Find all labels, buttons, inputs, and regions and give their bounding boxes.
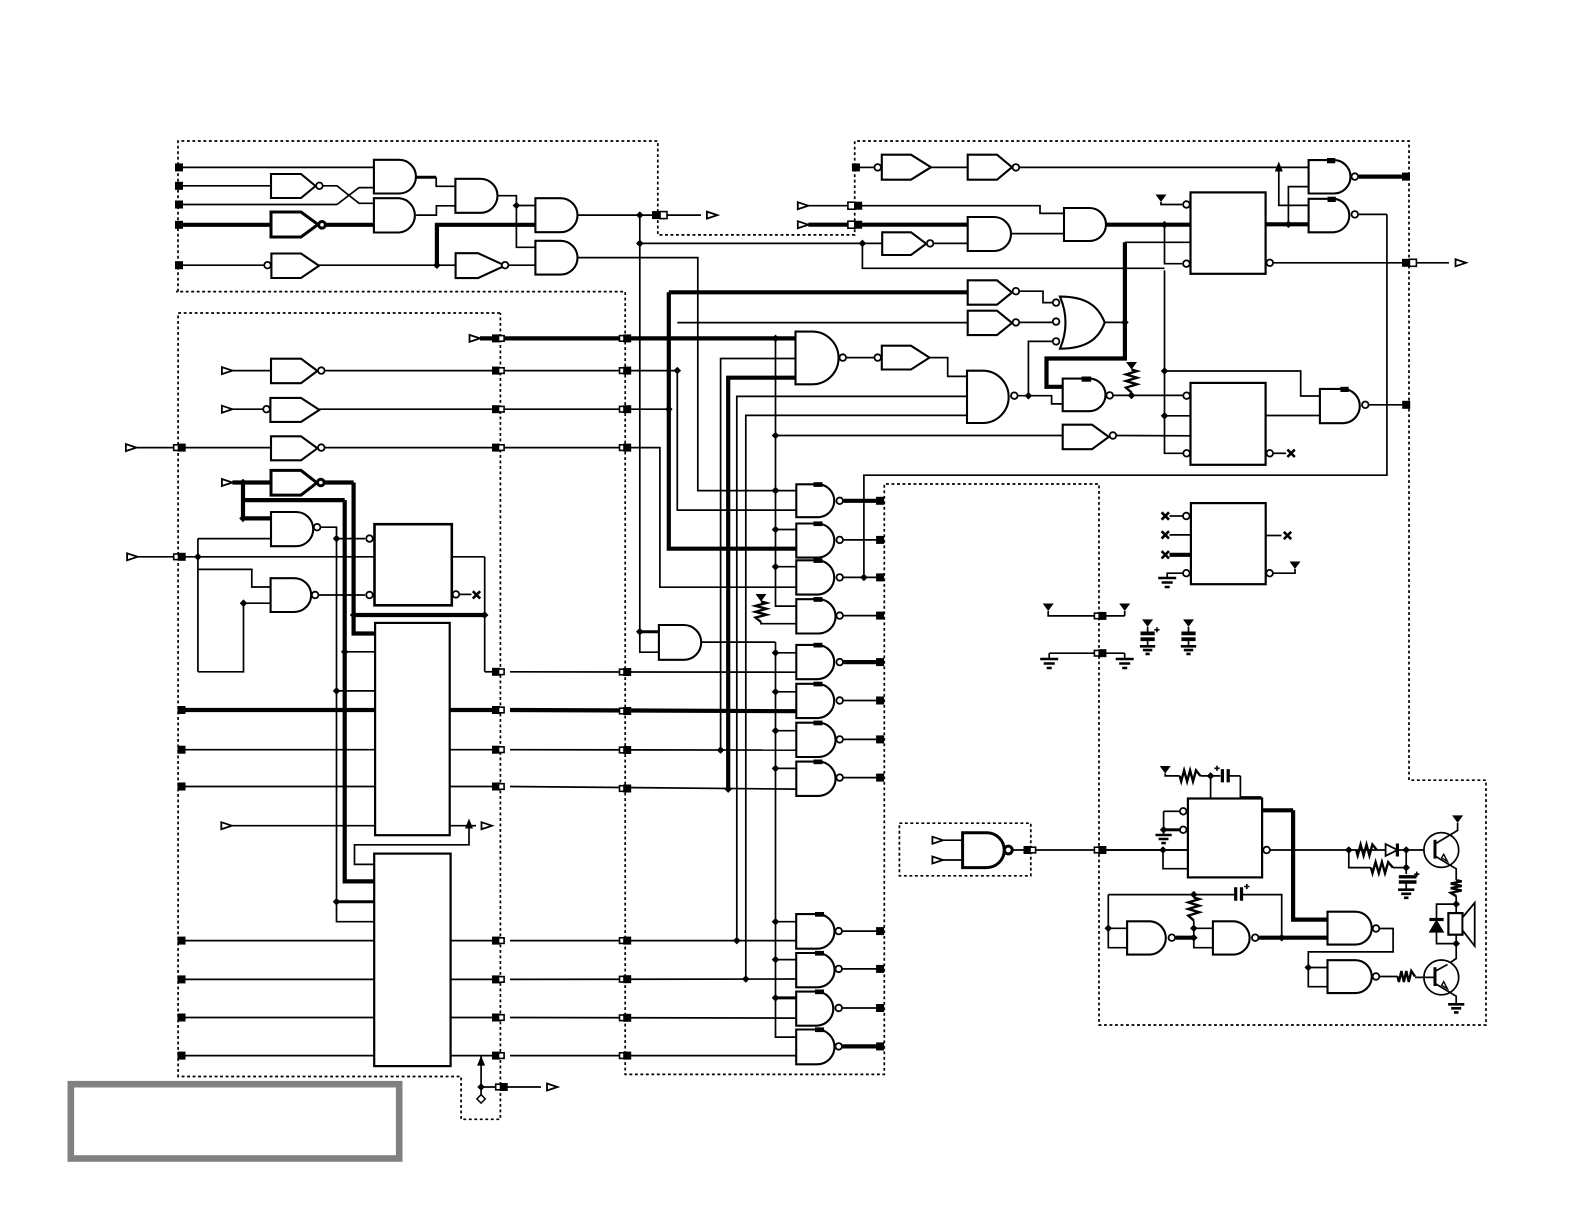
junction: [772, 956, 780, 964]
open node diamond: [477, 1095, 485, 1103]
thick path to NAND Q1: [1047, 322, 1125, 386]
AND gate G1: [374, 160, 416, 194]
wire W1 out feedback to W2: [1308, 929, 1393, 987]
NAND B3: [796, 992, 833, 1026]
wire R1 to M4: [761, 622, 796, 624]
emitter chain to R6: [1453, 867, 1457, 881]
junction: [772, 918, 780, 926]
junction: [636, 211, 644, 219]
wire A2 out: [1011, 233, 1064, 235]
junction: [665, 405, 673, 413]
NAND B1: [796, 914, 834, 949]
wire: [509, 264, 535, 266]
wire P-box out bubble: [1267, 260, 1274, 267]
junction: [772, 649, 780, 657]
junction arrow: [1275, 162, 1283, 172]
input terminal: [178, 746, 186, 754]
input arrow: [798, 221, 809, 228]
boundary terminal: [1094, 613, 1100, 619]
input wire from oscillator: [1103, 849, 1188, 851]
NAND N1 (3-input): [796, 332, 839, 385]
thick bus wire to NAND N1: [480, 336, 796, 340]
dashed boundary top-left block: [176, 141, 1486, 1074]
junction: [772, 487, 780, 495]
input terminal T1: [175, 163, 183, 171]
title block (grey box): [71, 1084, 399, 1158]
resistor R4: [1356, 845, 1377, 856]
input arrow: [222, 406, 233, 413]
wire G4-out vertical rail: [639, 215, 641, 632]
junction arrow: [465, 819, 473, 829]
junction arrow: [477, 1056, 485, 1066]
junction: [1285, 221, 1293, 229]
wire: [862, 243, 1164, 268]
NAND M4: [796, 599, 835, 633]
long wire to NAND P1: [1020, 166, 1309, 168]
wire U10 out 3: [451, 1017, 497, 1019]
wire node to inverter U5: [640, 242, 882, 244]
wire to gate M1 lower input: [677, 371, 796, 511]
input terminal T5: [175, 261, 183, 269]
junction: [772, 727, 780, 735]
pin-strap mark: [814, 558, 823, 563]
pin link: [1165, 225, 1183, 264]
boundary terminal: [620, 938, 626, 944]
wire: [1161, 202, 1182, 205]
boundary terminal: [876, 927, 884, 935]
boundary terminal: [492, 1052, 500, 1060]
wire M5 out to terminal: [844, 660, 877, 664]
wire into IC T-box: [1210, 776, 1212, 799]
thick rail from U2B: [667, 292, 671, 546]
junction: [1105, 925, 1113, 933]
wire S1 out: [1012, 849, 1188, 851]
wire M3 out to terminal: [844, 576, 877, 578]
pin bubble: [1180, 808, 1187, 815]
junction: [733, 937, 741, 945]
boundary terminal: [492, 334, 500, 342]
boundary terminal: [492, 783, 500, 791]
wire M-B out: [319, 594, 365, 596]
buffer U1D: [456, 253, 506, 278]
resistor R1 pull-up: [756, 602, 767, 623]
wire M7 out to terminal: [844, 738, 877, 740]
thick rail down to NOR output node: [1123, 242, 1127, 322]
pin bubble IC Q-box: [1183, 392, 1190, 399]
input arrow: [798, 202, 809, 209]
wire to inverter U6: [669, 290, 968, 294]
NAND P2: [1309, 199, 1350, 233]
thick rail: [354, 483, 376, 634]
input terminal: [178, 975, 186, 983]
boundary terminal: [876, 658, 884, 666]
rail A1 out down bottom gates: [776, 642, 797, 1037]
stub into IC U9: [337, 690, 376, 692]
boundary terminal: [848, 202, 855, 209]
rail from N1 down middle gates: [776, 338, 797, 606]
dashed boundary middle-left block: [178, 313, 500, 1119]
pin-strap mark: [1327, 158, 1335, 163]
vertical link: [197, 539, 199, 672]
wire across gap: [510, 1055, 796, 1057]
output arrow: [547, 1084, 558, 1091]
junction: [1402, 864, 1410, 872]
wire M1 out to terminal: [844, 499, 877, 503]
wire M-A in2: [198, 538, 271, 540]
boundary terminal: [492, 405, 500, 413]
NAND W1: [1328, 912, 1372, 945]
junction: [772, 994, 780, 1002]
wire branch down to NAND P2: [1279, 167, 1309, 205]
junction: [1190, 934, 1198, 942]
boundary terminal: [492, 746, 500, 754]
junction: [333, 535, 341, 543]
wire across gap: [510, 671, 796, 673]
junction: [481, 611, 489, 619]
NOR gate (3-input, inverted inputs): [1053, 299, 1060, 306]
junction: [341, 648, 349, 656]
boundary terminal: [496, 1084, 502, 1090]
junction: [772, 487, 780, 495]
boundary terminal: [620, 708, 626, 714]
pin-strap mark: [814, 597, 823, 602]
pin bubble: [1183, 201, 1190, 208]
wire P2 out (feedback start): [1359, 213, 1387, 215]
ground: [1398, 890, 1414, 898]
boundary terminal: [876, 573, 884, 581]
pin-strap mark: [815, 1027, 824, 1032]
resistor R5 (parallel): [1349, 850, 1371, 868]
NAND W2: [1328, 960, 1372, 993]
wire U9 out 1 thick: [450, 708, 497, 712]
wire to U7A input: [677, 322, 967, 324]
wire W2 out: [1380, 976, 1398, 978]
AND gate G2: [374, 198, 415, 232]
inverter U6: [968, 280, 1012, 304]
IC P-box (flip-flop): [1191, 192, 1266, 273]
inverter U2D: [271, 470, 317, 495]
stub into IC U9: [345, 651, 375, 653]
junction: [1402, 846, 1410, 854]
junction: [240, 599, 248, 607]
NAND V2: [1213, 921, 1250, 954]
buffer U4B: [968, 155, 1012, 180]
wire into AND A1 inputs: [640, 630, 659, 633]
resistor R7: [1188, 898, 1199, 921]
boundary terminal: [876, 497, 884, 505]
NAND M-A: [271, 512, 313, 546]
wire U5 out: [934, 242, 968, 244]
decoupling capacitor C2: [1183, 619, 1194, 627]
rail up to NAND N2: [737, 396, 967, 940]
wire pin link: [1125, 241, 1191, 243]
wire U7B out to IC Q-box: [1117, 435, 1191, 437]
resistor R3: [1180, 770, 1201, 781]
vertical link: [484, 557, 486, 672]
wire U7A out to NOR: [1020, 321, 1052, 323]
no-connect x + pin: [1162, 531, 1169, 538]
wire B2 out to terminal: [843, 968, 877, 970]
feedback top wire: [1108, 894, 1234, 896]
junction: [772, 432, 780, 440]
junction: [350, 611, 358, 619]
inverter U1B: [271, 212, 318, 237]
junction: [1452, 900, 1460, 908]
boundary terminal: [492, 937, 500, 945]
boundary terminal: [620, 445, 626, 451]
wire across gap: [510, 940, 796, 942]
pin-strap mark: [814, 482, 823, 487]
wire into NAND M-A in1: [243, 516, 271, 520]
pin bubble: [1183, 260, 1190, 267]
pin-strap mark: [815, 912, 824, 917]
inverter U3 (inverted input): [874, 354, 881, 361]
wire across gap thick: [510, 710, 796, 711]
boundary terminal: [620, 1053, 626, 1059]
NAND S1: [963, 833, 1005, 868]
NAND M-B: [271, 578, 312, 612]
pin bubble + no-connect: [1267, 450, 1274, 457]
pin bubble + power flag: [1266, 570, 1273, 577]
IC T-box output bubble: [1263, 847, 1270, 854]
wire U10 out 2: [451, 978, 497, 980]
wire: [319, 264, 456, 266]
boundary terminal: [620, 747, 626, 753]
boundary terminal: [1094, 847, 1100, 853]
input arrow far left: [127, 553, 138, 560]
power flag pair: [1043, 604, 1054, 612]
input arrow: [221, 822, 232, 829]
wire U3 out: [930, 358, 968, 377]
pin bubble U8 out: [453, 591, 460, 598]
output arrow: [482, 822, 493, 829]
no-connect x + pin thick: [1162, 551, 1169, 558]
rail to IC U10: [337, 539, 375, 922]
boundary terminal: [174, 554, 180, 560]
rail up to NAND N2: [746, 415, 967, 979]
boundary terminal: [876, 1004, 884, 1012]
junction: [772, 335, 780, 343]
boundary terminal: [620, 786, 626, 792]
pin bubble IC U8: [366, 592, 373, 599]
junction: [859, 240, 867, 248]
pin-strap mark: [1082, 377, 1092, 382]
pin-strap mark: [814, 521, 823, 526]
wire G1 out: [416, 176, 436, 179]
junction: [1161, 412, 1169, 420]
inverter U2C: [271, 436, 317, 460]
wire across gap: [510, 1017, 796, 1020]
AND gate A3: [1064, 208, 1106, 241]
wire into IC T-box: [1240, 776, 1260, 799]
IC R-box: [1191, 503, 1266, 584]
junction: [239, 515, 247, 523]
no-connect x: [473, 591, 480, 598]
wire M-B in1: [198, 569, 271, 587]
wire G4 out to output terminal: [578, 214, 654, 216]
wire A1 out: [701, 641, 775, 643]
junction: [1190, 925, 1198, 933]
thick wire P1 out: [1359, 175, 1403, 179]
wire Q1 out: [1114, 394, 1183, 396]
wire U2A out: [325, 370, 677, 372]
input terminal: [178, 1014, 186, 1022]
wire across gap: [510, 749, 796, 751]
wire U2B out: [319, 408, 668, 410]
NAND B4: [796, 1030, 834, 1065]
boundary terminal: [492, 1014, 500, 1022]
junction: [1207, 772, 1215, 780]
junction: [772, 688, 780, 696]
input terminal: [178, 706, 186, 714]
input arrow far left: [126, 444, 136, 451]
wire: [516, 205, 535, 207]
junction: [1161, 367, 1169, 375]
NAND Q2: [1320, 389, 1360, 423]
capacitor C5 (polarized): [1236, 887, 1242, 901]
wire: [326, 223, 374, 227]
pin-strap mark: [814, 643, 823, 648]
boundary terminal: [492, 367, 500, 375]
boundary terminal: [852, 163, 860, 171]
AND gate G4: [535, 198, 577, 232]
power flag: [1126, 362, 1137, 370]
junction: [477, 1083, 485, 1091]
thick wire A3 out to IC P-box: [1106, 223, 1191, 227]
thick stub into IC U10: [337, 900, 375, 903]
wire B1 out to terminal: [843, 930, 877, 932]
junction: [674, 367, 682, 375]
NAND B2: [796, 953, 834, 987]
capacitor C4 (polarized): [1399, 877, 1417, 882]
boundary terminal: [876, 735, 884, 743]
collector to power flag: [1453, 823, 1457, 833]
wire M-B in2: [244, 602, 271, 604]
rail up to NAND N1: [721, 359, 796, 751]
input arrow: [222, 479, 233, 486]
AND gate G3: [455, 179, 497, 213]
inverter U7A: [968, 311, 1012, 335]
junction: [239, 479, 247, 487]
transistor Q2 (NPN): [1424, 960, 1459, 995]
wire N2 out: [1018, 396, 1062, 404]
thick wire V1 out: [1176, 936, 1194, 940]
NAND M1: [796, 484, 834, 517]
junction: [333, 687, 341, 695]
boundary terminal: [1094, 650, 1100, 656]
output arrow: [667, 214, 701, 216]
NAND M8: [796, 762, 835, 796]
input arrow: [932, 837, 943, 844]
junction: [636, 628, 644, 636]
pin-strap mark: [814, 721, 823, 726]
wire: [931, 166, 968, 168]
boundary terminal: [1402, 259, 1410, 267]
junction: [1345, 846, 1353, 854]
junction: [1161, 221, 1169, 229]
boundary terminal: [492, 444, 500, 452]
boundary terminal: [876, 536, 884, 544]
flyback diode D2: [1437, 904, 1457, 919]
inverter U2A: [271, 359, 317, 384]
wire across gap: [510, 787, 796, 790]
thick wire U2D out: [325, 480, 354, 484]
junction: [1190, 891, 1198, 899]
boundary terminal: [848, 221, 855, 228]
NAND N2 (3-input): [967, 371, 1009, 423]
stub down to node: [480, 1056, 482, 1099]
wire U9 out 2: [450, 749, 497, 751]
speaker LS1: [1448, 913, 1462, 935]
thick branch rail: [241, 483, 245, 519]
inverter U5: [882, 232, 926, 255]
power flag: [756, 594, 767, 602]
capacitor C3 (polarized): [1222, 769, 1228, 782]
wire M6 out to terminal: [844, 700, 877, 702]
junction: [717, 746, 725, 754]
input arrow: [222, 367, 233, 374]
NAND P1: [1309, 160, 1351, 193]
boundary terminal: [492, 975, 500, 983]
junction: [433, 261, 441, 269]
boundary terminal: [876, 697, 884, 705]
wire across gap: [510, 978, 796, 980]
junction: [1160, 826, 1168, 834]
power flag: [1160, 766, 1171, 774]
junction: [1159, 846, 1167, 854]
ground + pin bubble: [1158, 578, 1176, 587]
decoupling capacitor C1: [1142, 619, 1153, 627]
junction: [1278, 934, 1286, 942]
wire U10 out 1: [451, 940, 497, 942]
boundary terminal: [876, 965, 884, 973]
wire B4 out to terminal: [843, 1044, 877, 1048]
long feedback rail from NAND P2: [864, 214, 1387, 577]
NAND M5: [796, 645, 834, 679]
input arrow: [470, 335, 481, 342]
thick rail up to NAND N1: [728, 378, 795, 789]
wire M4 out to terminal: [844, 615, 877, 617]
wire + no-connect x: [1266, 535, 1282, 537]
boundary terminal: [620, 406, 626, 412]
wire Q2 out: [1369, 404, 1403, 406]
input terminal T2: [175, 182, 183, 190]
inverter U1A: [271, 174, 316, 198]
junction: [333, 898, 341, 906]
junction: [1128, 392, 1136, 400]
pin-strap mark: [1340, 387, 1348, 392]
input arrow: [932, 857, 943, 864]
junction: [1121, 319, 1129, 327]
boundary terminal: [1402, 173, 1410, 181]
output arrow: [1416, 262, 1449, 264]
pin-strap mark: [814, 682, 823, 687]
junction: [742, 975, 750, 983]
thick wire: [243, 498, 345, 502]
long rail to IC Q-box: [1165, 270, 1183, 453]
wire U9 out 4: [450, 825, 469, 827]
junction: [860, 574, 868, 582]
wire X-cross lower: [337, 188, 374, 205]
wire U9 out 3: [450, 786, 497, 788]
wire Q-box out to NAND Q2: [1266, 415, 1320, 417]
IC Q-box: [1191, 383, 1266, 465]
junction: [1025, 392, 1033, 400]
inverter U7B: [1063, 425, 1109, 450]
boundary terminal: [876, 612, 884, 620]
wire to gate M2 lower input: [669, 547, 797, 549]
wire to Q1 base: [1397, 849, 1431, 851]
